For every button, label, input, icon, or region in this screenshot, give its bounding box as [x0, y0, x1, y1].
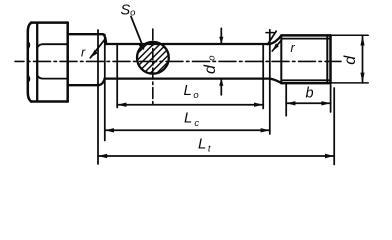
S0 leader	[131, 17, 144, 49]
main axis centerline	[15, 60, 341, 62]
svg-text:So: So	[121, 3, 136, 19]
svg-text:Lt: Lt	[198, 135, 211, 154]
svg-text:Lc: Lc	[184, 109, 199, 129]
svg-text:d: d	[202, 64, 219, 74]
bolt end face	[329, 35, 332, 83]
L0 extension left	[116, 45, 118, 108]
thread chamfer line	[326, 35, 328, 83]
grip bottom line	[68, 79, 105, 86]
svg-text:Lo: Lo	[184, 82, 199, 101]
Lc extension right	[269, 30, 271, 134]
head side arc bottom	[28, 76, 30, 82]
svg-text:b: b	[306, 86, 314, 102]
thread crest top	[281, 34, 330, 37]
d extension lines	[331, 34, 369, 36]
section hatching S0	[116, 25, 205, 75]
thread root bottom	[282, 79, 331, 81]
shank top line	[105, 43, 270, 45]
head side arc top	[28, 42, 30, 48]
r leader right oblique	[268, 31, 277, 44]
head hex edge	[36, 23, 38, 102]
head bottom edge	[31, 100, 68, 103]
Lc dimension line	[105, 129, 270, 131]
fillet to thread top	[270, 36, 282, 44]
revolved section circle	[137, 42, 169, 74]
fillet to thread bottom	[270, 79, 282, 83]
thread start line	[280, 36, 282, 84]
grip top line	[68, 34, 107, 44]
head face arc bottom	[38, 76, 68, 78]
L0 extension right	[262, 46, 264, 109]
r leader right arrow	[272, 40, 281, 51]
head bearing face	[66, 23, 69, 102]
r leader left	[90, 38, 106, 58]
head top edge	[31, 21, 68, 24]
b extension right	[330, 85, 332, 112]
Lt dimension line	[98, 155, 334, 157]
hex head outline	[28, 23, 32, 102]
thread root top	[282, 38, 331, 40]
b dimension line	[286, 102, 330, 104]
Lt extension left	[97, 30, 99, 164]
svg-text:r: r	[81, 46, 86, 60]
d dimension line	[362, 35, 364, 83]
svg-text:r: r	[291, 41, 296, 55]
tick on Lc extension right	[266, 32, 274, 34]
d0 dimension	[220, 28, 222, 44]
shank bottom line	[105, 77, 270, 79]
thread crest bottom	[281, 82, 330, 85]
svg-text:d: d	[342, 55, 359, 65]
hole vertical centerline	[152, 29, 154, 104]
svg-text:o: o	[206, 56, 217, 61]
head face arc top	[38, 44, 68, 47]
L0 dimension line	[117, 104, 263, 106]
Lt extension right	[333, 88, 335, 165]
b extension left	[285, 85, 287, 116]
Lc extension left	[104, 35, 106, 141]
